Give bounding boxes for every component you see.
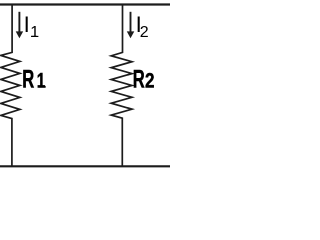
svg-text:1: 1 bbox=[37, 69, 46, 93]
svg-text:2: 2 bbox=[140, 24, 149, 41]
svg-text:2: 2 bbox=[145, 69, 155, 93]
svg-text:R: R bbox=[133, 66, 145, 94]
svg-text:R: R bbox=[22, 66, 34, 94]
svg-text:I: I bbox=[24, 12, 30, 37]
svg-text:1: 1 bbox=[30, 24, 39, 41]
